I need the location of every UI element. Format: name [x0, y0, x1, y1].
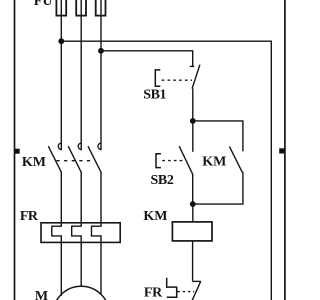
phase wire L2 [80, 0, 82, 150]
fuse FU2 [76, 0, 86, 16]
pushbutton SB1 actuator bracket [155, 70, 160, 86]
motor M circle [53, 286, 110, 300]
thermal relay FR moving contact [191, 281, 201, 300]
node B junction dot [190, 201, 196, 207]
phase wire L3 [100, 0, 102, 150]
wire L2 lower with FR heater 2 [72, 172, 82, 287]
junction node on L1 [58, 38, 64, 44]
thermal relay FR box [41, 223, 120, 243]
svg-text:KM: KM [202, 155, 226, 170]
svg-text:FR: FR [20, 209, 39, 224]
svg-text:KM: KM [22, 155, 46, 170]
thermal relay FR element symbol [167, 278, 177, 298]
pushbutton SB1 actuator dotted link [162, 79, 192, 81]
wire SB1 to node A [192, 88, 194, 121]
KM main contacts linkage dotted [57, 160, 95, 162]
wire node A to KM aux branch [193, 121, 243, 151]
svg-text:SB1: SB1 [143, 88, 166, 103]
contactor KM main contact 2 blade [68, 146, 81, 172]
wire L3 lower with FR heater 3 [92, 172, 102, 295]
fuse FU3 [96, 0, 106, 16]
left terminal square [15, 149, 20, 154]
contactor KM main contact 1 blade [48, 146, 61, 172]
svg-text:KM: KM [143, 209, 167, 224]
thermal relay FR dotted link [178, 291, 195, 293]
contactor KM main contact 1 arc [58, 143, 61, 149]
svg-text:M: M [35, 289, 48, 300]
wire SB2 to node B [192, 174, 194, 204]
left bus line [14, 0, 16, 300]
pushbutton SB2 actuator bracket [156, 154, 161, 168]
pushbutton SB2 upper terminal [192, 121, 194, 152]
pushbutton SB1 fixed contact tick [190, 65, 195, 67]
control wire from L1 to right side [61, 41, 271, 300]
thermal relay FR contact tick [193, 280, 201, 282]
junction node on L3 [98, 48, 104, 54]
pushbutton SB2 moving contact [179, 146, 192, 174]
fuse FU1 [56, 0, 66, 16]
wire L1 lower with FR heater 1 [52, 172, 62, 296]
pushbutton SB1 moving contact [192, 65, 200, 89]
wire coil to FR contact [192, 241, 194, 282]
control wire from L3 to SB1 [101, 51, 193, 67]
contactor KM main contact 3 arc [98, 143, 101, 149]
node A junction dot [190, 118, 196, 124]
right bus line [284, 0, 286, 300]
wire node B to coil [192, 204, 194, 222]
svg-text:SB2: SB2 [151, 173, 174, 188]
wire KM aux to node B [193, 172, 243, 204]
contactor coil KM [172, 222, 212, 241]
svg-text:FR: FR [144, 285, 163, 300]
contactor KM main contact 2 arc [78, 143, 81, 149]
contactor KM main contact 3 blade [88, 146, 101, 172]
phase wire L1 [60, 0, 62, 150]
right terminal square [279, 148, 284, 153]
svg-text:FU: FU [34, 0, 53, 9]
pushbutton SB2 actuator dotted link [162, 160, 184, 162]
contactor KM auxiliary contact [229, 146, 242, 172]
